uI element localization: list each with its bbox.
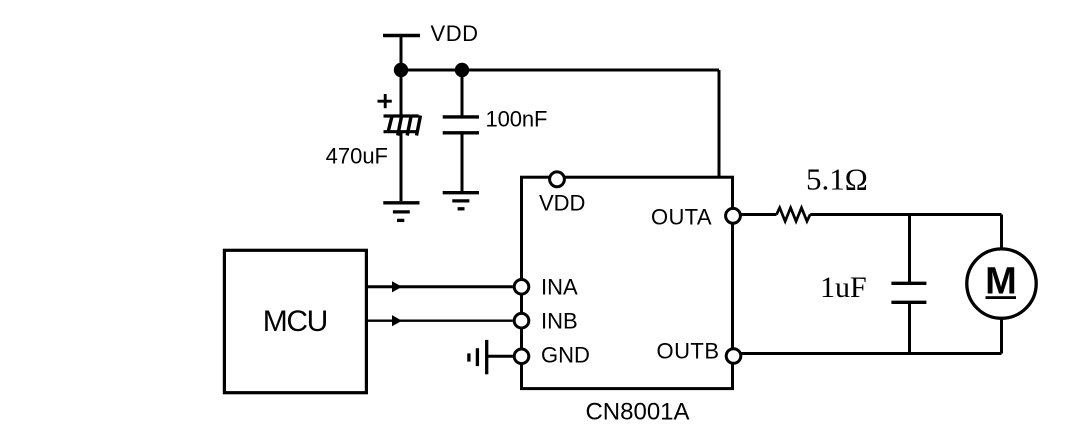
pin VDD circle [550,172,565,187]
motor underline [986,296,1017,299]
capacitor C3 1uF [891,215,926,354]
wire VDD bus [401,69,719,72]
ground for C2 [443,193,479,209]
svg-text:OUTA: OUTA [651,205,712,230]
wire VDD drop to IC [718,70,721,179]
arrow on INB wire [392,315,402,326]
junction dot at C1 [394,63,408,77]
capacitor C1 470uF electrolytic [378,70,421,201]
power symbol VDD [383,36,420,71]
wire OUTB to motor bottom [741,352,1001,355]
pin OUTB circle [726,349,741,364]
motor M1 circle [967,249,1036,318]
pin GND circle [514,349,529,364]
wire MCU to INB [366,320,513,322]
MCU block [224,250,366,392]
resistor R1 5.1 ohm [777,208,811,222]
svg-text:5.1Ω: 5.1Ω [806,162,868,197]
capacitor C2 100nF [443,70,479,193]
svg-text:INA: INA [541,274,578,299]
svg-text:VDD: VDD [539,191,585,216]
wire OUTA to resistor [741,213,777,216]
IC U1 body [522,177,733,388]
wire down to motor [1000,215,1003,250]
wire MCU to INA [366,285,513,288]
ground for C1 [383,203,419,221]
svg-text:VDD: VDD [431,21,479,46]
svg-text:100nF: 100nF [486,107,548,132]
svg-text:470uF: 470uF [326,144,388,169]
wire GND pin to ground [488,355,513,358]
pin INA circle [514,280,529,295]
svg-text:MCU: MCU [263,305,329,338]
ground at GND pin (rotated) [469,340,487,374]
wire resistor to motor top [810,213,1001,216]
pin OUTA circle [726,208,741,223]
arrow on INA wire [392,281,402,292]
svg-text:GND: GND [541,342,590,367]
pin INB circle [514,313,529,328]
svg-text:INB: INB [541,308,578,333]
wire motor bottom up [1000,319,1003,354]
junction dot at C2 [455,63,469,77]
svg-text:OUTB: OUTB [657,339,720,364]
svg-text:CN8001A: CN8001A [585,399,689,426]
svg-text:1uF: 1uF [820,271,867,304]
